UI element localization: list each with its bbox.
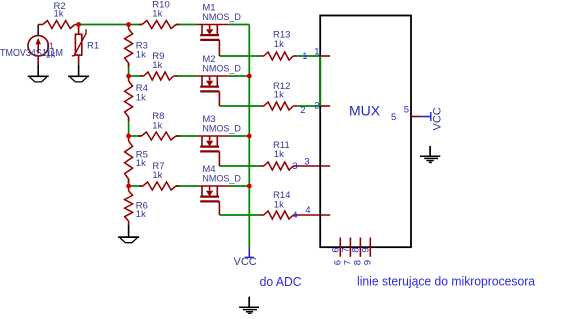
wire R6 to ground bbox=[128, 225, 130, 237]
svg-text:1k: 1k bbox=[136, 50, 146, 61]
ground under R6 bbox=[118, 236, 139, 238]
wire resistor to transistor source bbox=[176, 75, 197, 77]
wire transistor drain to bus bbox=[229, 75, 250, 77]
svg-text:4: 4 bbox=[292, 210, 297, 221]
wire chain to R7 row bbox=[129, 185, 142, 187]
svg-text:1k: 1k bbox=[54, 9, 64, 20]
resistor R12 bbox=[260, 102, 297, 110]
junction node at 249.3,136 bbox=[247, 134, 252, 139]
wire top rail chain to R10 bbox=[129, 24, 142, 26]
pin stub 1 inside box bbox=[320, 55, 330, 57]
wire gate lead to resistor bbox=[219, 105, 260, 107]
svg-text:1: 1 bbox=[302, 51, 307, 62]
transistor M1 NMOS_D bbox=[197, 25, 229, 57]
svg-text:1: 1 bbox=[314, 47, 319, 58]
wire vertical bus to VCC port bbox=[248, 25, 250, 247]
svg-text:1k: 1k bbox=[152, 120, 162, 131]
pin stub 2 inside box bbox=[320, 105, 330, 107]
svg-text:1k: 1k bbox=[274, 39, 284, 50]
svg-text:NMOS_D: NMOS_D bbox=[202, 124, 241, 134]
pin 6 stub bbox=[339, 238, 341, 257]
svg-text:1k: 1k bbox=[136, 209, 146, 220]
MUX box U1 bbox=[320, 16, 411, 248]
resistor R6 bbox=[125, 187, 133, 225]
wire chain seg R5-junction bbox=[128, 179, 130, 186]
svg-text:9: 9 bbox=[361, 247, 372, 252]
wire gate lead to resistor bbox=[219, 214, 260, 216]
svg-text:VCC: VCC bbox=[234, 256, 257, 268]
wire resistor to transistor source bbox=[176, 135, 197, 137]
svg-text:1k: 1k bbox=[274, 149, 284, 160]
wire M1 drain to bus corner bbox=[229, 24, 250, 26]
svg-text:TMOV34S111M: TMOV34S111M bbox=[0, 48, 63, 59]
wire vertical pin1-pin2 along box edge bbox=[319, 56, 321, 106]
wire pin 3 bbox=[295, 165, 330, 167]
current source I1 bbox=[28, 25, 48, 77]
wire R12 to pin 2 bbox=[297, 105, 320, 107]
wire chain to R8 row bbox=[129, 135, 142, 137]
resistor R11 bbox=[260, 162, 297, 170]
pin 7 stub bbox=[349, 238, 351, 257]
resistor R3 bbox=[125, 25, 133, 67]
wire gate lead to resistor bbox=[219, 55, 260, 57]
wire R13 to pin 1 bbox=[297, 55, 320, 57]
svg-text:NMOS_D: NMOS_D bbox=[202, 64, 241, 74]
junction node at 249.3,186 bbox=[247, 184, 252, 189]
svg-text:NMOS_D: NMOS_D bbox=[202, 174, 241, 184]
pin 8 stub bbox=[359, 238, 361, 257]
svg-text:NMOS_D: NMOS_D bbox=[202, 12, 241, 22]
wire vertical pin1-pin2 over box edge bbox=[319, 56, 321, 106]
junction node at 128.6,76 bbox=[126, 74, 131, 79]
svg-text:4: 4 bbox=[305, 205, 310, 216]
resistor R7 bbox=[139, 182, 179, 190]
resistor R5 bbox=[125, 137, 133, 183]
svg-text:3: 3 bbox=[304, 156, 309, 167]
varistor R1 bbox=[72, 25, 86, 77]
junction node at 78.6,24.5 bbox=[76, 22, 81, 27]
earth ground right bbox=[420, 146, 440, 163]
resistor R2 bbox=[38, 21, 78, 29]
wire resistor to transistor source bbox=[176, 185, 197, 187]
wire R10 to M1 source bbox=[176, 24, 197, 26]
svg-text:MUX: MUX bbox=[349, 103, 381, 119]
transistor M4 NMOS_D bbox=[197, 186, 229, 215]
svg-text:9: 9 bbox=[363, 260, 374, 265]
wire transistor drain to bus bbox=[229, 135, 250, 137]
ground under I1 bbox=[28, 75, 49, 77]
svg-text:5: 5 bbox=[404, 105, 409, 116]
resistor R4 bbox=[125, 77, 133, 121]
junction node at 128.6,136 bbox=[126, 134, 131, 139]
resistor R13 bbox=[260, 52, 297, 60]
svg-text:5: 5 bbox=[391, 112, 396, 123]
transistor M3 NMOS_D bbox=[197, 136, 229, 166]
svg-text:1k: 1k bbox=[136, 158, 146, 169]
svg-text:linie sterujące do mikroproces: linie sterujące do mikroprocesora bbox=[357, 274, 536, 289]
ground under R1 bbox=[68, 75, 89, 77]
junction node at 128.6,24.5 bbox=[126, 22, 131, 27]
wire chain to R9 row bbox=[129, 75, 142, 77]
svg-text:1k: 1k bbox=[136, 93, 146, 104]
pin 9 stub bbox=[369, 238, 371, 257]
wire gate lead to resistor bbox=[219, 165, 260, 167]
wire chain seg R3-junction bbox=[128, 63, 130, 76]
svg-text:1k: 1k bbox=[274, 199, 284, 210]
svg-text:2: 2 bbox=[314, 100, 319, 111]
resistor R14 bbox=[260, 211, 297, 219]
svg-text:VCC: VCC bbox=[432, 107, 444, 130]
pin 5 wire bbox=[411, 116, 420, 118]
wire top rail from R2 junction to chain top bbox=[79, 24, 129, 26]
resistor R8 bbox=[138, 132, 179, 140]
port VCC right bbox=[420, 107, 444, 130]
transistor M2 NMOS_D bbox=[197, 76, 229, 106]
svg-text:1k: 1k bbox=[274, 90, 284, 101]
svg-text:do ADC: do ADC bbox=[260, 274, 302, 289]
resistor R9 bbox=[140, 72, 177, 80]
svg-text:1k: 1k bbox=[152, 170, 162, 181]
resistor R10 bbox=[139, 21, 180, 29]
earth ground bottom left bbox=[239, 297, 259, 314]
junction node at 249.3,76 bbox=[247, 74, 252, 79]
svg-text:3: 3 bbox=[292, 161, 297, 172]
port VCC bottom bbox=[234, 247, 257, 269]
wire pin 4 bbox=[295, 214, 330, 216]
svg-text:2: 2 bbox=[300, 105, 305, 116]
svg-text:R1: R1 bbox=[87, 40, 99, 51]
wire chain seg R4-junction bbox=[128, 117, 130, 136]
svg-text:1k: 1k bbox=[152, 60, 162, 71]
svg-text:1k: 1k bbox=[152, 9, 162, 20]
wire transistor drain to bus bbox=[229, 185, 250, 187]
junction node at 128.6,186 bbox=[126, 184, 131, 189]
